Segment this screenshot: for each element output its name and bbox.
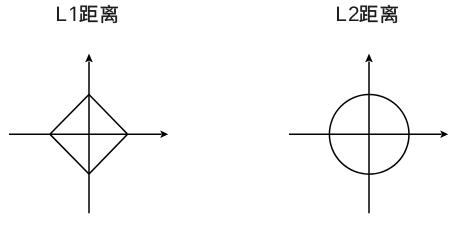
x axis arrowhead (right plot) (440, 130, 448, 138)
right diagram: L2 unit ball (289, 62, 442, 214)
x axis (right plot) (289, 133, 442, 135)
glyph L (337, 7, 346, 21)
left diagram: L1 unit ball (9, 62, 162, 214)
title "L2距离" (337, 5, 398, 23)
glyph 离 (381, 5, 398, 23)
glyph 离 (101, 5, 118, 23)
x axis arrowhead (left plot) (160, 130, 168, 138)
diamond (L1 unit circle) (50, 95, 128, 175)
y axis arrowhead (left plot) (85, 54, 93, 63)
glyph 距 (359, 6, 377, 22)
y axis (left plot) (88, 62, 90, 214)
y axis arrowhead (right plot) (365, 54, 373, 63)
title "L1距离" (57, 5, 118, 23)
y axis (right plot) (368, 62, 370, 214)
glyph 2 (349, 6, 359, 21)
circle (L2 unit circle) (329, 95, 409, 175)
x axis (left plot) (9, 133, 162, 135)
glyph 距 (79, 6, 97, 22)
glyph 1 (70, 7, 75, 21)
glyph L (57, 7, 66, 21)
